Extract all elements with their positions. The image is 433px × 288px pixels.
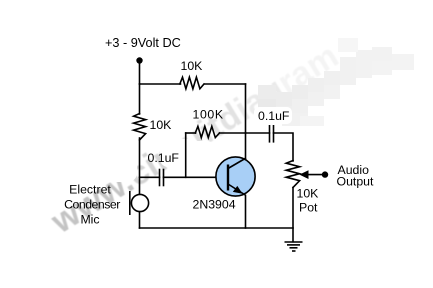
transistor Q1 collector stroke xyxy=(228,158,246,169)
transistor Q1 emitter stroke xyxy=(228,184,246,196)
svg-text:+3 - 9Volt DC: +3 - 9Volt DC xyxy=(105,36,181,50)
node supply dot xyxy=(136,57,142,63)
wire 100K left lead xyxy=(186,132,196,134)
svg-text:Electret: Electret xyxy=(69,183,111,197)
wire supply dot down to top rail xyxy=(139,61,141,85)
svg-text:Condenser: Condenser xyxy=(64,198,120,212)
svg-text:10K: 10K xyxy=(297,187,320,201)
wire top rail right segment xyxy=(205,83,246,85)
svg-text:100K: 100K xyxy=(193,108,224,122)
pot wiper arrow line xyxy=(302,174,326,176)
wire mic bottom to bottom rail xyxy=(139,212,141,228)
transistor Q1 emitter arrow xyxy=(233,186,243,194)
transistor Q1 body xyxy=(216,157,255,196)
potentiometer R4 10K element xyxy=(286,161,299,188)
electret mic MK1 body xyxy=(131,194,148,211)
svg-text:2N3904: 2N3904 xyxy=(193,197,236,211)
svg-text:0.1uF: 0.1uF xyxy=(148,151,180,165)
watermark white patches xyxy=(90,107,292,182)
ground GND xyxy=(285,242,303,251)
resistor R2 100K (horizontal) xyxy=(195,126,219,137)
svg-text:10K: 10K xyxy=(150,118,173,132)
watermark blocky band top-right xyxy=(258,38,414,126)
svg-text:Mic: Mic xyxy=(80,213,99,227)
capacitor C2 0.1uF plates xyxy=(269,126,271,142)
wire 100K left riser xyxy=(185,133,187,177)
wire R3 bottom to mic top xyxy=(139,138,141,195)
wire bottom rail xyxy=(140,227,294,229)
wire cap C1 left lead xyxy=(140,176,160,178)
wire top rail left segment xyxy=(140,83,181,85)
svg-text:0.1uF: 0.1uF xyxy=(258,109,290,123)
resistor R1 10K (top, horizontal) xyxy=(180,77,204,89)
wire C1 to base xyxy=(164,176,229,178)
resistor R3 10K (left, vertical) xyxy=(134,114,146,141)
wire collector node to C2 xyxy=(246,132,270,134)
wire collector drop xyxy=(245,84,247,159)
electret mic MK1 element bar xyxy=(129,191,131,215)
svg-text:Pot: Pot xyxy=(299,201,318,215)
wire 100K right lead to collector node xyxy=(220,132,246,134)
wire C2 to pot corner xyxy=(274,133,294,161)
svg-text:10K: 10K xyxy=(181,59,204,73)
wire left column: top rail to R3 xyxy=(139,84,141,114)
node output dot xyxy=(322,171,328,177)
pot wiper arrowhead xyxy=(299,170,308,179)
transistor Q1 base bar xyxy=(227,165,229,191)
watermark text www.circuitdiagram xyxy=(44,37,345,242)
capacitor C1 0.1uF plates xyxy=(159,170,161,186)
wire emitter drop xyxy=(245,196,247,228)
svg-text:Output: Output xyxy=(337,175,374,189)
wire pot bottom to ground xyxy=(292,188,294,242)
